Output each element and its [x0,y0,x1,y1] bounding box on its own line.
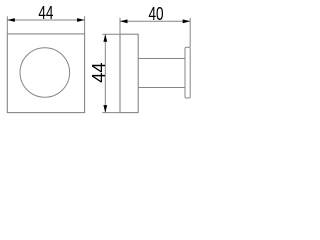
dimension 40 (top of side view): left arrowhead [120,19,128,23]
dimension 40 (top of side view): extension line left [119,18,121,34]
dimension 44 (left of side view): top arrowhead [103,34,107,42]
front view: knob circle [20,48,70,98]
dimension 40 (top of side view): right arrowhead [183,19,191,23]
dimension 40 (top of side view): dimension line [120,20,190,22]
dimension 44 (left of side view): bottom arrowhead [103,105,107,113]
svg-text:44: 44 [88,62,109,82]
dimension 44 (left of side view): extension line bottom [102,112,120,114]
dimension 44 (top of front view): left arrowhead [7,18,15,22]
front view: square face plate [7,34,84,113]
dimension 44 (top of front view): dimension line [7,19,84,21]
svg-text:40: 40 [148,4,163,24]
dimension 44 (left of side view): dimension line [104,34,106,112]
side view: neck bottom line [138,87,185,89]
side view: end disc (knob) [185,47,190,98]
dimension 40 (top of side view): extension line right [189,18,191,47]
dimension 44 (left of side view): extension line top [102,33,120,35]
dimension 44 (top of front view): extension line left [6,16,8,34]
dimension 44 (top of front view): right arrowhead [77,18,85,22]
svg-text:44: 44 [38,3,53,23]
side view: plate rectangle [120,34,138,112]
side view: neck top line [138,58,185,60]
dimension 44 (top of front view): extension line right [84,16,86,34]
